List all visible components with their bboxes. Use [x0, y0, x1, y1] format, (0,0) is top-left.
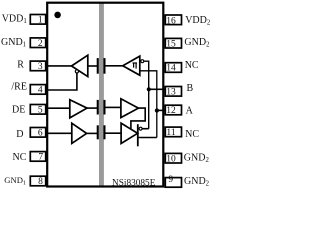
svg-text:1: 1 — [38, 16, 43, 26]
svg-text:/RE: /RE — [11, 81, 27, 92]
svg-text:14: 14 — [166, 64, 176, 74]
svg-text:A: A — [186, 105, 194, 116]
svg-text:15: 15 — [166, 40, 176, 50]
svg-text:GND1: GND1 — [4, 175, 26, 186]
svg-text:DE: DE — [12, 105, 25, 116]
svg-text:2: 2 — [38, 39, 43, 49]
svg-text:VDD1: VDD1 — [2, 14, 27, 26]
svg-text:3: 3 — [38, 62, 43, 72]
svg-text:8: 8 — [38, 177, 43, 187]
svg-text:NC: NC — [185, 129, 199, 140]
svg-text:4: 4 — [38, 86, 43, 96]
svg-text:9: 9 — [168, 175, 173, 185]
svg-text:11: 11 — [166, 128, 175, 138]
svg-text:D: D — [16, 129, 23, 140]
svg-text:5: 5 — [38, 106, 43, 116]
svg-text:16: 16 — [166, 16, 176, 26]
svg-text:B: B — [187, 83, 194, 94]
svg-text:13: 13 — [166, 88, 176, 98]
svg-text:7: 7 — [38, 153, 43, 163]
svg-text:10: 10 — [166, 154, 176, 164]
svg-text:GND1: GND1 — [1, 37, 26, 49]
svg-text:NC: NC — [185, 60, 199, 71]
svg-text:NC: NC — [13, 152, 27, 163]
svg-text:R: R — [17, 60, 24, 71]
svg-text:NSi83085E: NSi83085E — [112, 178, 156, 188]
svg-text:6: 6 — [38, 129, 43, 139]
svg-text:12: 12 — [166, 106, 176, 116]
